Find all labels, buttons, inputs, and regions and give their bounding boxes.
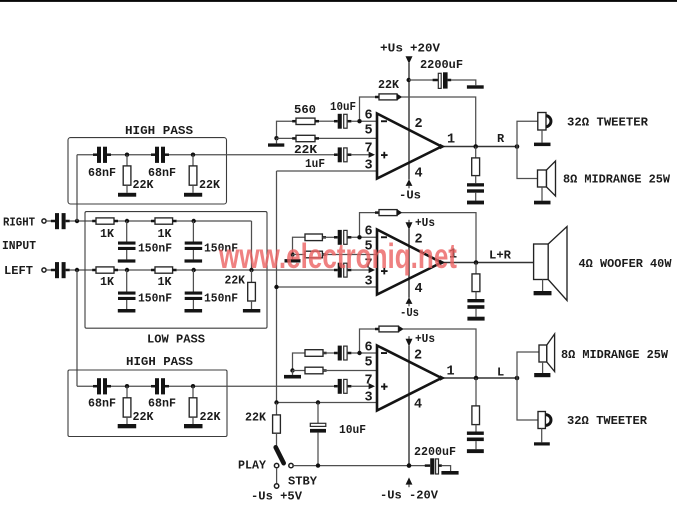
wire 560 to 10uF xyxy=(319,120,334,122)
capacitor 2200uF bottom xyxy=(425,458,442,474)
node pin3 bottom bus xyxy=(274,400,278,404)
svg-text:4: 4 xyxy=(415,282,423,297)
label pin6 mid xyxy=(365,225,373,240)
ground 150nF 2a xyxy=(118,309,136,313)
ground zobel bottom xyxy=(467,449,484,453)
node HP1 junction 1 xyxy=(125,153,129,157)
svg-text:4: 4 xyxy=(414,398,422,413)
wire 2200uF bottom to ground xyxy=(442,466,451,471)
wire left terminal to cap xyxy=(46,269,51,271)
label RIGHT xyxy=(3,216,35,230)
wire LP row1 to row2 corner xyxy=(251,221,253,270)
ground midrange L xyxy=(534,373,550,377)
svg-text:7: 7 xyxy=(365,142,373,157)
plus sign U2 xyxy=(381,268,388,275)
resistor 1K r1b xyxy=(151,218,177,224)
resistor 22K HP1 a vertical xyxy=(123,155,131,193)
label 1uF xyxy=(305,157,325,171)
wire play contact down xyxy=(276,468,278,484)
label pin1 mid xyxy=(449,248,457,263)
wire pin5 to opamp xyxy=(319,137,377,139)
svg-text:1: 1 xyxy=(447,133,455,148)
label INPUT xyxy=(2,239,36,253)
label 1K r1b xyxy=(158,227,173,241)
svg-text:+Us: +Us xyxy=(380,42,403,56)
resistor 560 bottom xyxy=(305,350,327,357)
ground 560 22K network xyxy=(268,138,284,147)
svg-text:INPUT: INPUT xyxy=(2,239,36,253)
node output L xyxy=(515,376,520,381)
ground 150nF 1b xyxy=(185,259,203,262)
capacitor 150nF 2a xyxy=(118,270,136,309)
label -Us +5V xyxy=(251,490,303,504)
label L+R xyxy=(489,249,512,263)
wire to midrange R xyxy=(517,147,538,179)
label pin2 mid xyxy=(415,233,423,248)
label pin1 top xyxy=(447,133,455,148)
wire right cap to low pass xyxy=(70,220,96,222)
label HIGH PASS top xyxy=(125,124,193,138)
label PLAY xyxy=(238,459,267,473)
svg-text:10uF: 10uF xyxy=(339,423,366,437)
svg-text:RIGHT: RIGHT xyxy=(3,216,35,230)
power arrow -Us top xyxy=(406,179,413,188)
label 68nF c xyxy=(88,397,116,411)
wire mid 560 to ground corner xyxy=(293,237,306,254)
svg-text:1uF: 1uF xyxy=(305,157,325,171)
svg-text:6: 6 xyxy=(365,341,373,356)
svg-text:-Us +5V: -Us +5V xyxy=(251,490,303,504)
wire pin3 mid xyxy=(277,286,378,288)
svg-text:L+R: L+R xyxy=(489,249,512,263)
svg-text:6: 6 xyxy=(365,109,373,124)
wire output middle to woofer xyxy=(442,262,534,264)
resistor 22K feedback bottom xyxy=(375,326,399,332)
node pin6 mid xyxy=(357,235,361,239)
arrow feedback middle xyxy=(397,209,402,216)
resistor 560 xyxy=(292,118,319,124)
terminal right input xyxy=(42,219,46,223)
label pin5 bottom xyxy=(365,356,373,371)
wire pin5 bottom to opamp xyxy=(323,370,377,372)
label pin4 mid xyxy=(415,282,423,297)
svg-text:LEFT: LEFT xyxy=(4,264,33,278)
svg-text:+Us: +Us xyxy=(415,332,435,346)
ground HP1 a xyxy=(118,193,136,197)
label pin4 top xyxy=(415,167,423,182)
wire output top xyxy=(442,146,518,148)
capacitor 2200uF top xyxy=(433,72,452,88)
svg-text:HIGH PASS: HIGH PASS xyxy=(125,124,193,138)
ground HP1 b xyxy=(184,193,202,197)
supply line top opamp xyxy=(408,63,410,180)
arrow feedback bottom xyxy=(399,326,404,333)
watermark www.electroniq.net xyxy=(218,237,457,276)
label pin3 mid xyxy=(365,275,373,290)
node mid network ground junction xyxy=(290,252,294,256)
label +Us top xyxy=(380,42,403,56)
svg-text:22K: 22K xyxy=(133,178,155,192)
label pin7 bottom xyxy=(365,373,373,388)
high pass filter box top xyxy=(68,138,227,204)
label pin4 bottom xyxy=(414,398,422,413)
svg-text:1K: 1K xyxy=(158,227,173,241)
wire to tweeter L xyxy=(517,378,538,420)
capacitor 150nF 2b xyxy=(185,270,203,309)
ground tweeter L xyxy=(534,442,550,445)
wire pin5 left xyxy=(277,137,297,139)
wire right input up to high pass xyxy=(76,155,78,221)
node LP1 junction 2 xyxy=(192,219,196,223)
label 22K standby xyxy=(245,411,267,425)
svg-text:10uF: 10uF xyxy=(330,100,356,114)
wire feedback middle right to output xyxy=(402,213,477,263)
wire pin5 mid to opamp xyxy=(322,254,377,256)
wire supply to 2200uF xyxy=(409,79,433,81)
low pass filter box xyxy=(85,212,267,329)
capacitor left input coupling xyxy=(51,262,70,278)
svg-text:8Ω MIDRANGE 25W: 8Ω MIDRANGE 25W xyxy=(561,348,669,362)
wire feedback bottom left xyxy=(360,329,376,353)
capacitor zobel mid xyxy=(467,299,484,317)
label -Us middle xyxy=(400,306,419,320)
wire pin3 top xyxy=(277,170,378,172)
resistor zobel bottom xyxy=(472,378,480,432)
wire mid pin6 row xyxy=(322,236,334,238)
label 10uF standby xyxy=(339,423,366,437)
label 22K HP1 b xyxy=(199,178,221,192)
svg-text:2: 2 xyxy=(414,349,422,364)
svg-text:2200uF: 2200uF xyxy=(420,58,463,72)
label 22K HP2 b xyxy=(200,410,222,424)
label STBY xyxy=(288,475,318,489)
power arrow +Us middle xyxy=(406,220,413,230)
svg-text:1K: 1K xyxy=(158,275,173,289)
wire HP1 row segment b xyxy=(111,154,151,156)
wire bottom pin6 row xyxy=(323,352,334,354)
svg-text:22K: 22K xyxy=(245,411,267,425)
svg-text:22K: 22K xyxy=(378,78,400,92)
label pin1 bottom xyxy=(447,365,455,380)
ground mid network xyxy=(285,255,301,263)
label 150nF 2b xyxy=(204,292,238,306)
svg-text:68nF: 68nF xyxy=(148,166,176,180)
label 68nF b xyxy=(148,166,176,180)
node LP2 junction 1 xyxy=(125,268,129,272)
node LP2 junction 2 xyxy=(192,268,196,272)
resistor 22K pin5 bottom xyxy=(293,367,327,374)
wire 10uF to pin6 mid xyxy=(351,236,377,238)
label pin3 top xyxy=(365,159,373,174)
svg-text:-Us: -Us xyxy=(400,306,419,320)
svg-text:R: R xyxy=(497,132,505,146)
ground HP2 a xyxy=(118,424,137,428)
svg-text:68nF: 68nF xyxy=(88,397,116,411)
ground 22K LP xyxy=(243,309,260,313)
capacitor right input coupling xyxy=(51,213,70,229)
label 22K HP2 a xyxy=(133,410,155,424)
label pin7 mid xyxy=(365,258,373,273)
node right input junction xyxy=(75,219,79,223)
svg-text:HIGH PASS: HIGH PASS xyxy=(126,355,193,369)
wire 1uF to pin7 xyxy=(351,154,370,156)
wire HP1 row segment a xyxy=(77,154,94,156)
svg-text:5: 5 xyxy=(365,124,373,139)
svg-text:5: 5 xyxy=(365,356,373,371)
label pin6 top xyxy=(365,109,373,124)
capacitor 150nF 1a xyxy=(118,221,136,259)
node LP1 junction 1 xyxy=(125,219,129,223)
svg-text:+20V: +20V xyxy=(410,42,441,56)
node 560 22K ground junction xyxy=(274,136,278,140)
supply line middle opamp xyxy=(408,229,410,298)
switch contact play xyxy=(274,463,278,467)
label 8ohm midrange R xyxy=(563,173,671,187)
arrow output apex middle xyxy=(440,260,445,265)
resistor 1K r1a xyxy=(92,218,118,224)
label pin2 bottom xyxy=(414,349,422,364)
high pass filter box bottom xyxy=(68,370,227,437)
ground woofer xyxy=(534,291,552,295)
label 560 xyxy=(294,103,316,117)
label 150nF 2a xyxy=(138,292,172,306)
node HP2 junction 2 xyxy=(191,384,195,388)
svg-text:150nF: 150nF xyxy=(138,242,172,256)
label 68nF a xyxy=(88,166,116,180)
supply line bottom opamp xyxy=(408,346,410,466)
label 22K feedback top xyxy=(378,78,400,92)
resistor 1K r2b xyxy=(151,267,177,273)
plus sign U3 xyxy=(381,383,388,390)
svg-text:L: L xyxy=(497,366,504,380)
wire 10uF to pin6 xyxy=(351,120,377,122)
capacitor 1uF mid pin7 xyxy=(334,263,351,278)
label pin5 top xyxy=(365,124,373,139)
wire LP row1 seg c xyxy=(177,220,252,222)
ground 2200uF bottom xyxy=(441,471,458,475)
wire LP row2 seg b xyxy=(118,269,151,271)
resistor zobel top xyxy=(472,147,480,184)
label +Us bottom xyxy=(415,332,435,346)
wire feedback middle left xyxy=(360,213,376,238)
svg-text:560: 560 xyxy=(294,103,316,117)
svg-text:32Ω TWEETER: 32Ω TWEETER xyxy=(567,116,649,130)
svg-text:22K: 22K xyxy=(200,410,222,424)
ground 150nF 2b xyxy=(185,309,203,313)
wire 1uF mid to pin7 xyxy=(351,269,370,271)
switch lever PLAY/STBY xyxy=(276,447,284,463)
svg-text:+Us: +Us xyxy=(415,216,435,230)
ground 150nF 1a xyxy=(118,259,136,262)
resistor 22K HP1 b vertical xyxy=(189,155,197,193)
capacitor 1uF xyxy=(334,147,351,162)
wire to tweeter R xyxy=(517,121,538,146)
svg-text:1K: 1K xyxy=(100,275,115,289)
resistor 1K r2a xyxy=(92,267,118,273)
resistor 22K feedback top xyxy=(375,94,397,100)
node output zobel top xyxy=(473,144,478,149)
node pin3 to 10uF standby xyxy=(316,400,320,404)
ground midrange R xyxy=(534,201,551,205)
resistor 22K HP2 a vertical xyxy=(123,386,131,424)
wire HP2 row segment c to bottom opamp xyxy=(169,385,334,387)
capacitor 68nF d xyxy=(151,378,169,394)
wire feedback top right to output xyxy=(402,97,476,147)
svg-text:22K: 22K xyxy=(133,410,155,424)
label 10uF top xyxy=(330,100,356,114)
node left input junction xyxy=(75,268,79,272)
label 1K r2b xyxy=(158,275,173,289)
node pin6 top xyxy=(357,119,361,123)
label 1K r2a xyxy=(100,275,115,289)
node output zobel bottom xyxy=(474,376,479,381)
switch contact stby xyxy=(289,463,293,467)
wire 2200uF to ground xyxy=(451,80,476,85)
resistor 22K standby vertical xyxy=(273,403,281,448)
label pin6 bottom xyxy=(365,341,373,356)
wire stby rail xyxy=(293,465,425,467)
wire feedback top left xyxy=(360,97,376,121)
svg-text:www.electroniq.net: www.electroniq.net xyxy=(218,237,457,276)
label L xyxy=(497,366,504,380)
ground zobel top xyxy=(467,201,484,205)
label pin7 top xyxy=(365,142,373,157)
resistor 22K HP2 b vertical xyxy=(189,386,197,424)
terminal left input xyxy=(42,268,46,272)
node LP row2 junction 22K xyxy=(249,268,253,272)
wire left cap to low pass xyxy=(70,269,96,271)
resistor 22K pin5 middle xyxy=(293,251,327,258)
node output R xyxy=(515,144,520,149)
wire bottom 560 to ground corner xyxy=(293,353,306,371)
node bottom network ground junction xyxy=(290,368,294,372)
svg-text:1: 1 xyxy=(447,365,455,380)
label -Us -20V xyxy=(380,489,439,503)
svg-text:68nF: 68nF xyxy=(88,166,116,180)
node output zobel mid xyxy=(474,260,479,265)
wire 10uF to pin6 bottom xyxy=(351,352,377,354)
wire right terminal to cap xyxy=(46,220,51,222)
label -Us top xyxy=(399,189,421,203)
op-amp U3 triangle xyxy=(377,346,442,411)
node HP1 junction 2 xyxy=(191,153,195,157)
label 2200uF bottom xyxy=(414,445,456,459)
switch terminal -Us xyxy=(274,484,278,488)
label 8ohm midrange L xyxy=(561,348,669,362)
svg-text:LOW PASS: LOW PASS xyxy=(147,333,205,347)
svg-text:PLAY: PLAY xyxy=(238,459,267,473)
label 150nF 1b xyxy=(204,242,238,256)
capacitor zobel bottom xyxy=(467,432,484,450)
wire output bottom xyxy=(442,377,518,379)
capacitor 68nF b xyxy=(151,147,169,163)
label 22K LP xyxy=(225,274,246,288)
label LEFT xyxy=(4,264,33,278)
node stby supply xyxy=(407,463,412,468)
label +Us middle xyxy=(415,216,435,230)
capacitor 10uF standby xyxy=(310,403,326,466)
arrow output apex bottom xyxy=(440,375,445,380)
tweeter speaker L xyxy=(538,412,551,443)
wire HP1 row segment c to 1uF xyxy=(169,154,334,156)
node HP2 junction 1 xyxy=(125,384,129,388)
svg-text:3: 3 xyxy=(365,275,373,290)
svg-text:3: 3 xyxy=(365,390,373,405)
svg-text:2200uF: 2200uF xyxy=(414,445,456,459)
label pin2 top xyxy=(415,117,423,132)
label R xyxy=(497,132,505,146)
wire LP row1 seg b xyxy=(118,220,151,222)
capacitor 10uF bottom pin6 xyxy=(334,346,351,361)
resistor zobel mid xyxy=(472,263,480,300)
wire HP2 row segment b xyxy=(111,385,151,387)
capacitor 10uF top xyxy=(334,114,351,129)
plus sign U1 xyxy=(381,152,388,159)
ground bottom network xyxy=(284,371,301,379)
label 32ohm tweeter L xyxy=(567,414,648,428)
ground 2200uF top xyxy=(467,85,484,88)
capacitor 68nF a xyxy=(93,147,111,163)
node supply to 2200uF xyxy=(407,78,411,82)
wire to midrange L xyxy=(517,352,539,378)
minus sign U1 xyxy=(381,120,387,122)
svg-text:4Ω WOOFER 40W: 4Ω WOOFER 40W xyxy=(579,257,673,271)
midrange speaker L xyxy=(539,334,555,373)
svg-text:-Us: -Us xyxy=(399,189,421,203)
midrange speaker R xyxy=(538,161,556,201)
ground HP2 b xyxy=(184,424,203,428)
arrow feedback top xyxy=(397,94,402,101)
svg-text:150nF: 150nF xyxy=(138,292,172,306)
label HIGH PASS bottom xyxy=(126,355,193,369)
label pin5 mid xyxy=(365,240,373,255)
op-amp U2 triangle xyxy=(377,230,442,295)
label 32ohm tweeter R xyxy=(567,116,649,130)
label pin3 bottom xyxy=(365,390,373,405)
op-amp U1 triangle xyxy=(377,114,442,179)
wire pin3 bus vertical xyxy=(276,171,278,403)
node stby 10uF xyxy=(316,463,320,467)
capacitor 150nF 1b xyxy=(185,221,203,259)
capacitor zobel top xyxy=(467,183,484,200)
svg-text:8Ω MIDRANGE 25W: 8Ω MIDRANGE 25W xyxy=(563,173,671,187)
minus sign U3 xyxy=(381,352,387,354)
ground tweeter R xyxy=(534,143,551,147)
power arrow -Us middle xyxy=(406,297,413,306)
capacitor 10uF mid pin6 xyxy=(334,230,351,245)
svg-text:STBY: STBY xyxy=(288,475,318,489)
capacitor 1uF bottom pin7 xyxy=(334,379,351,394)
wire HP2 row segment a xyxy=(77,385,94,387)
wire 560 to ground corner xyxy=(277,121,297,138)
minus sign U2 xyxy=(381,236,387,238)
svg-text:150nF: 150nF xyxy=(204,292,238,306)
arrow into pin7 mid xyxy=(369,267,375,273)
resistor 22K LP vertical xyxy=(248,270,256,309)
resistor 560 middle xyxy=(305,234,326,241)
label 2200uF top xyxy=(420,58,463,72)
power arrow +Us bottom xyxy=(406,336,413,346)
label 22K HP1 a xyxy=(133,178,155,192)
wire LP row2 out to mid opamp xyxy=(177,269,335,271)
resistor 22K pin5 xyxy=(292,135,319,141)
capacitor 68nF c xyxy=(93,378,111,394)
svg-text:3: 3 xyxy=(365,159,373,174)
wire pin3 bottom xyxy=(277,402,378,404)
svg-text:-Us -20V: -Us -20V xyxy=(380,489,439,503)
wire 1uF bottom to pin7 xyxy=(351,385,370,387)
wire left input down to high pass 2 xyxy=(76,270,78,386)
